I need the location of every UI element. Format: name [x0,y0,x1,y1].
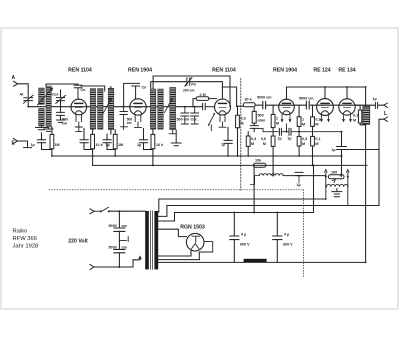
svg-text:Cn: Cn [142,86,148,90]
svg-text:Cos: Cos [52,93,59,97]
bias blocking capacitor 1u [295,172,303,175]
filter capacitor 4u first [230,236,239,240]
antenna coil L1 (tapped, with arrow) [39,88,45,105]
svg-text:0,3: 0,3 [251,137,256,141]
svg-text:0,6: 0,6 [261,137,266,141]
svg-text:Cn: Cn [81,88,87,92]
loudspeaker terminal top [384,103,387,107]
tube V1 grid squiggle [75,106,82,108]
series capacitor 5000cm output [306,101,309,109]
svg-text:M: M [353,119,356,123]
wire mains bottom [94,260,140,267]
wires column b [312,105,314,165]
wires resistor 1M [51,127,53,156]
wires cap 1u stage1 [42,133,52,150]
svg-text:REN 1104: REN 1104 [68,67,92,73]
tube V5 filament legs [321,115,330,121]
wire IFT2 secondary bottom [169,130,176,134]
capacitor under 500ohm [250,126,258,129]
svg-text:M: M [276,122,279,126]
tube V5 anode stem [324,87,326,99]
coil tap arrow [38,88,53,105]
antenna coil lower winding [39,109,45,127]
capacitor 5000cm mains bottom [114,249,125,252]
junction dots rail and buses [27,86,366,263]
wire IFT2 top to Pb [151,82,187,89]
switch wave-change [209,114,214,130]
ground stub under 500ohm cap [253,128,255,131]
resistor 0,3M column stage4 [246,136,250,146]
svg-text:100: 100 [331,171,337,175]
coil L1 secondary winding [46,86,51,127]
resistor 10k under V1 [91,134,95,148]
resistor 500ohm column [252,111,256,123]
resistor 1M output grid a [297,117,301,127]
choke left stub [250,176,259,185]
svg-text:RE 134: RE 134 [338,67,355,73]
svg-text:5000: 5000 [109,224,117,228]
tube V4 filament legs with arrows [281,115,291,122]
svg-text:Raiko: Raiko [13,229,28,235]
wire Pb to tube V3 grid [190,82,222,100]
tube V6 anode bar [343,102,351,104]
power transformer secondary winding [154,211,158,269]
wire At to rail [27,101,29,107]
chassis tap between mains caps [119,237,128,242]
IFT1 secondary winding [108,88,114,129]
svg-text:REN 1904: REN 1904 [273,67,297,73]
svg-text:500: 500 [258,114,264,118]
grid cap Cn tube V1 [74,84,82,99]
wire IFT1 secondary bottom [110,130,112,134]
svg-text:1µ: 1µ [287,137,291,141]
wire coil top to grid line [46,84,78,86]
wires resistor 10k to bus2 [92,130,94,166]
mains terminal top [90,209,94,214]
svg-text:1µ: 1µ [297,183,301,187]
svg-text:At: At [20,93,25,97]
svg-text:4 µ: 4 µ [284,233,289,237]
wire filament winding taps [158,256,199,260]
mains terminal bottom [90,265,94,270]
filament winding heater [327,184,348,186]
wires capacitor 500cm stage2 [121,107,128,130]
wires 2M/0,6M column [272,105,274,175]
svg-text:10 k: 10 k [156,143,164,147]
rectifier anode bar [192,236,199,242]
wires output transformer [355,105,365,262]
tube V4 grid squiggle [283,106,290,108]
svg-text:cm: cm [62,122,68,126]
tube V4 anode bar [283,102,291,104]
svg-text:30 k: 30 k [245,98,253,102]
tube V5 anode bar [321,102,329,104]
resistor 0,1M lower b [311,136,315,146]
svg-text:1M: 1M [118,143,123,147]
svg-text:ohm: ohm [258,119,267,123]
tube V3 anode bar [219,102,227,104]
ground under coil L1 [36,126,48,130]
svg-text:10 k: 10 k [96,143,104,147]
capacitor 1u under V1 [80,140,88,143]
wires capacitor 500cm stage3 [181,107,188,124]
capacitor 5000cm mains top [114,228,125,231]
wires hum capacitor [341,132,343,177]
tube V2 REN1904 envelope [130,99,146,115]
tube V4 anode stem to top wire [286,87,288,99]
tube V6 filament legs [343,115,352,121]
filter capacitor 4u second [273,236,282,240]
tube V3 grid squiggle [219,106,226,108]
svg-text:REN 1904: REN 1904 [128,67,152,73]
svg-text:M: M [302,142,305,146]
left heater riser with arrow [325,170,327,199]
tube V5 grid squiggle [322,106,329,108]
wires cap 1u under V3 [227,128,229,157]
svg-text:2 M: 2 M [200,93,206,97]
ground stub mid [171,130,181,146]
output capacitor 1u [375,102,377,108]
wires 0,3M column stage4 [247,132,249,156]
svg-text:220 Volt: 220 Volt [68,239,88,245]
power transformer core [151,211,153,269]
wires 500ohm column [253,107,255,125]
capacitor 500cm stage2 [120,112,127,115]
smoothing choke [244,259,267,263]
svg-text:RFW 366: RFW 366 [13,236,37,242]
ground under coil secondary [44,127,53,131]
rectifier cathode side wire [199,242,212,252]
resistor 2M horizontal [196,97,209,101]
svg-text:500 cm: 500 cm [177,118,190,122]
svg-text:1µ: 1µ [137,143,141,147]
IFT1 primary winding b [98,89,103,130]
wire loudspeaker return [346,119,384,149]
tube V1 cathode legs [75,114,82,131]
svg-text:600 V: 600 V [240,243,250,247]
variable capacitor At [24,95,34,103]
top anode wire to output transformer [287,87,366,106]
wires column a [298,105,300,156]
svg-text:RGN 1503: RGN 1503 [180,225,205,231]
svg-text:Cor.: Cor. [191,118,198,122]
wire bus2 drop at x313.5 [313,165,315,212]
tube V5 filament dome [321,111,329,114]
wire mains cap column [118,211,120,267]
dotted separator horizontal [49,189,304,191]
dotted separator vertical right [303,190,305,277]
svg-text:10k: 10k [255,159,262,163]
svg-text:1µ: 1µ [106,143,110,147]
tube V4 filament dome [283,111,291,114]
tube V3 filament dome [219,111,227,114]
svg-text:5000: 5000 [109,246,117,250]
svg-text:200 cm: 200 cm [183,88,195,92]
bias bus 2 [93,164,367,166]
svg-text:1µ: 1µ [278,137,282,141]
IFT2 primary winding b [158,89,163,129]
svg-text:cm: cm [122,224,128,228]
svg-text:M: M [241,122,244,126]
svg-text:1M: 1M [55,143,60,147]
loudspeaker terminal bottom [384,117,387,121]
svg-text:cm: cm [122,246,128,250]
B+ riser to bus2 [253,167,255,212]
wires resistor 10k under V2 to bus2 [152,130,154,166]
pot wiper arrow [332,173,341,183]
wires resistor 1M under IFT1 [114,130,116,156]
tube V1 REN1104 envelope [71,99,87,115]
tube V3 cathode legs [219,115,226,127]
svg-text:1µ: 1µ [31,143,35,147]
resistor 2M grid leak V4 [271,114,275,127]
svg-text:0,3: 0,3 [241,117,246,121]
rail right section [237,105,384,106]
tube V1 anode bar [75,102,83,104]
primary tap arrow [139,256,141,259]
svg-text:Pb: Pb [191,82,195,86]
wire E to chassis [17,141,31,148]
mains switch [94,207,108,211]
wire Cn V1 to IFT1 top [81,86,111,91]
wires bias blocking cap [298,176,300,183]
svg-text:1: 1 [302,118,304,122]
resistor 10k under V2 [151,134,155,148]
potentiometer 100 ohm [328,175,344,179]
antenna terminal A [14,81,18,86]
svg-text:M: M [302,123,305,127]
tube V6 anode stem [346,87,348,99]
wire B- bottom rail [158,261,365,263]
svg-text:0,1: 0,1 [315,137,320,141]
earth terminal E [13,138,17,143]
tube V2 cathode legs [135,115,142,128]
tube V1 filament dome [75,111,83,114]
svg-text:L: L [384,111,387,117]
IFT2 secondary winding [170,87,176,129]
wire secondary tap to heater wire B [158,206,379,217]
svg-text:M: M [251,142,254,146]
pot junctions [325,176,327,178]
resistor 1M under IFT1 [113,134,117,148]
svg-text:M: M [263,142,266,146]
svg-text:A: A [12,75,16,81]
svg-text:M: M [315,123,318,127]
series capacitor on rail stage3 [203,103,215,109]
wire antenna to tuning [18,84,29,97]
choke feed wire y175.6 [283,175,326,177]
resistor 0,1M output transformer [358,110,361,123]
resistor 0,3M output grid b [311,117,315,127]
junction mains caps [118,210,120,212]
capacitor Cor stage3 [191,113,199,116]
IFT2 primary winding a [150,89,155,129]
output transformer winding [363,106,370,124]
wire return down to PSU [378,150,380,206]
resistor 0,3M lower a [297,136,301,146]
svg-text:1µ: 1µ [221,143,225,147]
series capacitor 5000cm stage4 [263,101,266,108]
wires cap 1u under IFT1 [107,134,115,150]
svg-text:REN 1104: REN 1104 [212,67,236,73]
tube V5 RE124 envelope [317,99,334,116]
resistor 30k horizontal on rail [243,103,255,107]
wire anode feed rectifier [158,229,186,236]
grid cap Cn tube V2 [124,83,140,106]
svg-text:cm: cm [127,121,132,125]
wires filter cap second [276,213,278,263]
IFT1 trimmer arrow [103,99,112,114]
tube V3 REN1104 envelope [215,99,231,115]
svg-text:5000 cm: 5000 cm [299,97,314,101]
svg-text:4 µ: 4 µ [241,233,246,237]
wires cap 1u under V1 [84,129,93,150]
wire bias row y131.7 [258,124,342,132]
capacitor 1u under V3 [224,140,232,143]
tube V4 REN1904 envelope [279,99,295,115]
junction B+ riser [253,212,255,214]
wires filter cap first [233,213,235,263]
resistor 0,6M column [271,136,275,146]
svg-text:1µ: 1µ [331,148,335,152]
resistor 1M stage1 [50,134,54,148]
wire + ground of 500cm stage1 [57,107,65,123]
wires capacitor Cor [191,107,198,124]
ground heater center tap [332,189,342,197]
svg-text:M: M [315,142,318,146]
tube V2 filament dome [134,111,142,114]
wires cap 1u under V2 [144,129,153,150]
wire switch to transformer [110,210,146,212]
trimmer Pb [185,78,192,86]
right heater riser with arrow [347,170,349,206]
trimmer capacitor Cos [56,95,66,103]
svg-text:Jahr 1928: Jahr 1928 [13,243,39,249]
resistor 0,3M under feed drop [236,115,240,128]
svg-text:0,3: 0,3 [315,118,320,122]
capacitor 1u under IFT1 [103,140,111,143]
svg-text:2: 2 [276,117,278,121]
tube V2 anode bar [134,102,142,104]
tube V6 RE134 envelope [339,99,355,115]
bias bus 1 [52,155,342,157]
rectifier filament [191,244,199,249]
tube V6 grid squiggle [344,106,351,108]
IFT2 trimmer arrow [165,98,173,113]
wires resistor 2M [193,99,217,107]
capacitor 500cm stage1 [57,112,65,115]
wires resistor 0,3M [237,107,239,156]
rectifier RGN1503 envelope [186,233,204,251]
svg-text:0,3: 0,3 [302,137,307,141]
svg-text:1µ: 1µ [373,97,377,101]
capacitor 1u stage1 bottom [37,140,45,143]
main grid rail (left section) [28,106,202,108]
coupling capacitor 1u b under V4 [289,128,291,135]
wire IFT2 anode feed from V3 [153,76,230,107]
tube V2 grid squiggle [135,106,142,108]
power transformer primary winding [145,211,149,269]
svg-text:E: E [12,141,16,147]
coupling capacitor 1u a under V4 [279,128,281,135]
wire HT secondary top to heater wire A [158,199,326,212]
heater winding side wires [326,185,348,187]
svg-text:0,1: 0,1 [353,114,358,118]
capacitor 1u under V2 [139,140,147,143]
wire B+ rail [158,213,313,222]
rectifier filament legs [191,251,199,260]
capacitor 1u hum bias [337,147,347,150]
svg-text:600 V: 600 V [283,243,293,247]
wire Cos vertical [60,90,62,107]
svg-text:RE 124: RE 124 [313,67,330,73]
wire branch to 0,3M drop [222,87,236,107]
dashed separator vertical [240,79,242,191]
capacitor 500cm stage3 [181,113,189,116]
svg-text:5000 cm: 5000 cm [257,96,272,100]
resistor 10k bias bus [253,163,265,167]
IFT1 primary winding a [90,89,95,130]
tube V6 filament dome [343,111,351,114]
grid bias choke winding [259,174,283,176]
